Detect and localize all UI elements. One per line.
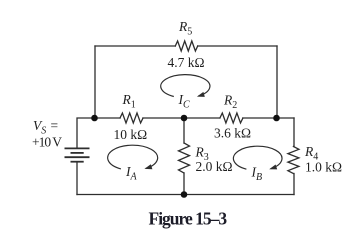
node junction bottom R3 [181, 191, 188, 198]
wire R3 branch bottom lead [183, 173, 185, 195]
wire top-left vertical [94, 46, 96, 118]
svg-text:R1: R1 [122, 92, 136, 111]
node junction R2 / top branch [273, 115, 280, 122]
wire middle segment R2 to right [243, 117, 294, 119]
wire top-right vertical [276, 46, 278, 118]
svg-text:IB: IB [251, 165, 263, 184]
svg-text:IC: IC [178, 92, 191, 111]
battery V_S plate short [71, 152, 84, 154]
wire middle segment node to R2 [184, 117, 220, 119]
resistor R1 [120, 113, 143, 123]
svg-text:Figure 15–3: Figure 15–3 [149, 209, 228, 229]
wire R3 branch top lead [183, 118, 185, 143]
svg-text:2.0 kΩ: 2.0 kΩ [196, 159, 233, 174]
svg-text:R5: R5 [178, 19, 192, 38]
resistor R4 [288, 147, 299, 174]
resistor R2 [220, 113, 243, 123]
loop current arrow I_B [233, 146, 282, 169]
svg-text:R2: R2 [223, 93, 237, 112]
svg-text:IA: IA [125, 164, 138, 183]
node junction R1/R2/R3 [181, 115, 188, 122]
wire R4 branch top lead [293, 118, 295, 147]
wire middle left segment [95, 117, 120, 119]
loop current arrow I_A [108, 145, 158, 169]
arrowhead I_C [197, 92, 205, 97]
wire middle segment R1 to node [143, 117, 184, 119]
svg-text:3.6 kΩ: 3.6 kΩ [214, 126, 251, 141]
node junction left (Vs / R1 / top loop) [91, 115, 98, 122]
arrowhead I_B [269, 165, 277, 170]
resistor R3 [179, 143, 190, 173]
svg-text:1.0 kΩ: 1.0 kΩ [305, 160, 342, 175]
svg-text:+10 V: +10 V [32, 135, 62, 150]
arrowhead I_A [144, 164, 152, 169]
svg-text:4.7 kΩ: 4.7 kΩ [168, 55, 205, 70]
battery V_S plate long [65, 156, 90, 158]
wire bottom [77, 194, 294, 196]
battery V_S plate long top [65, 147, 90, 149]
wire top left segment [95, 45, 175, 47]
resistor R5 [175, 41, 197, 51]
loop current arrow I_C [161, 75, 210, 97]
svg-text:10 kΩ: 10 kΩ [114, 127, 148, 142]
wire top right segment [198, 45, 277, 47]
battery V_S plate short bottom [71, 161, 84, 163]
wire battery stub left [77, 118, 95, 148]
wire R4 branch bottom lead [293, 174, 295, 195]
wire battery bottom lead [76, 162, 78, 195]
